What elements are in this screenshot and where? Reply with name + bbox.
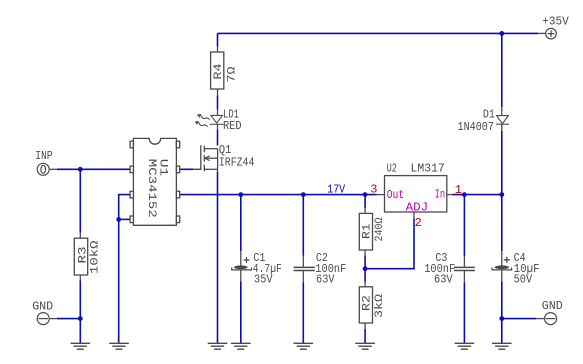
svg-text:50V: 50V: [514, 272, 533, 286]
svg-text:GND: GND: [32, 299, 53, 313]
svg-text:17V: 17V: [327, 183, 346, 197]
svg-text:MC34152: MC34152: [145, 159, 157, 218]
svg-text:3: 3: [370, 183, 377, 197]
svg-text:R1: R1: [362, 223, 374, 239]
svg-text:Out: Out: [387, 188, 405, 202]
svg-text:3kΩ: 3kΩ: [374, 294, 386, 318]
svg-text:ADJ: ADJ: [406, 200, 429, 214]
svg-text:R2: R2: [362, 295, 374, 311]
svg-text:GND: GND: [542, 299, 563, 313]
svg-text:63V: 63V: [316, 272, 335, 286]
svg-text:D1: D1: [483, 107, 495, 121]
svg-text:IRFZ44: IRFZ44: [219, 156, 255, 170]
svg-text:INP: INP: [35, 149, 52, 163]
svg-text:In: In: [435, 188, 446, 202]
svg-text:R4: R4: [213, 63, 225, 79]
svg-text:1: 1: [455, 183, 462, 197]
svg-text:1N4007: 1N4007: [458, 120, 494, 134]
svg-text:63V: 63V: [434, 272, 453, 286]
svg-text:RED: RED: [223, 119, 242, 133]
svg-text:+35V: +35V: [542, 14, 569, 28]
svg-text:2: 2: [415, 216, 422, 230]
svg-text:7Ω: 7Ω: [227, 66, 239, 82]
svg-text:R3: R3: [77, 247, 89, 264]
svg-text:35V: 35V: [254, 272, 273, 286]
svg-text:U2: U2: [387, 162, 397, 176]
svg-text:240Ω: 240Ω: [374, 217, 386, 241]
svg-text:10kΩ: 10kΩ: [90, 240, 102, 274]
svg-text:LM317: LM317: [411, 162, 445, 176]
